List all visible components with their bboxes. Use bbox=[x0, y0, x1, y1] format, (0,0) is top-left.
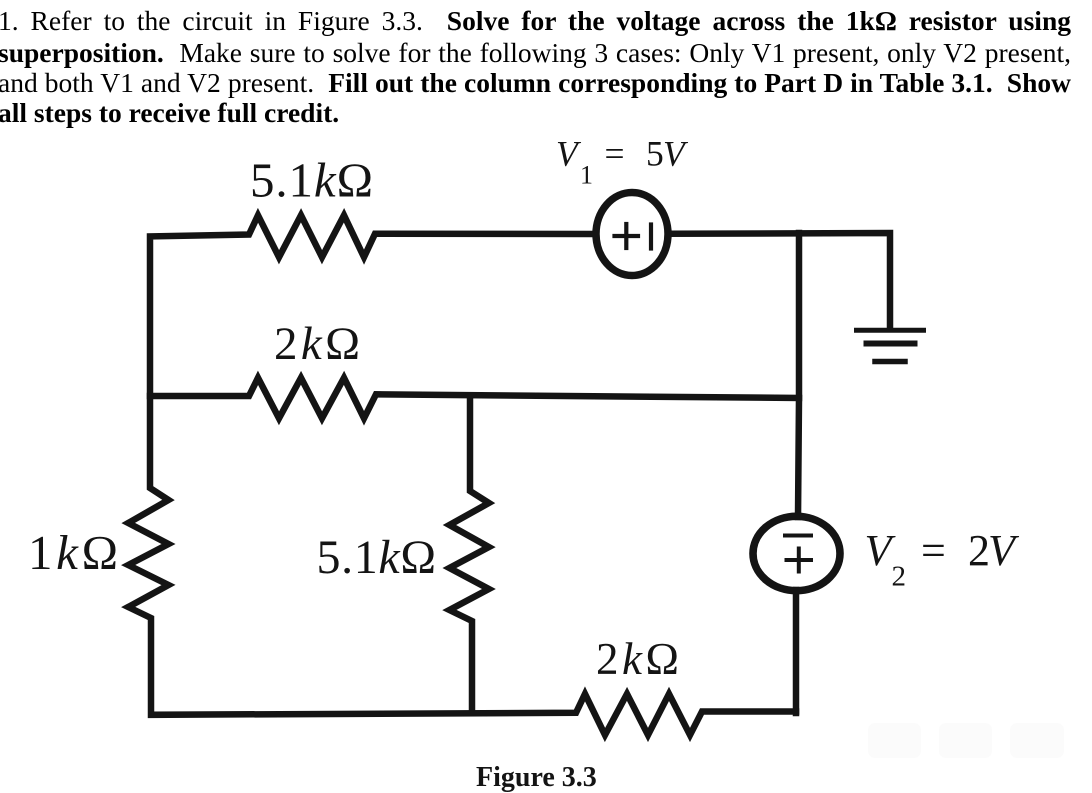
svg-text:2: 2 bbox=[892, 561, 907, 593]
svg-text:1kΩ: 1kΩ bbox=[28, 525, 118, 580]
svg-text:5.1kΩ: 5.1kΩ bbox=[250, 153, 373, 208]
svg-text:5.1kΩ: 5.1kΩ bbox=[317, 531, 437, 584]
svg-text:1: 1 bbox=[580, 161, 593, 190]
svg-text:V: V bbox=[663, 134, 689, 174]
svg-text:2kΩ: 2kΩ bbox=[274, 318, 360, 370]
svg-text:2: 2 bbox=[968, 526, 990, 575]
svg-text:Figure 3.3: Figure 3.3 bbox=[476, 762, 597, 793]
svg-text:V: V bbox=[556, 134, 582, 174]
svg-text:=: = bbox=[921, 526, 946, 575]
svg-text:V: V bbox=[988, 526, 1020, 575]
svg-text:=: = bbox=[605, 134, 625, 174]
svg-text:5: 5 bbox=[646, 134, 664, 174]
svg-text:2kΩ: 2kΩ bbox=[596, 634, 679, 684]
